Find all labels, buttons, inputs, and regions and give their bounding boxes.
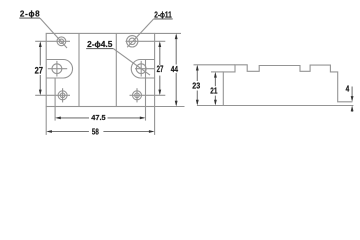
label 2-phi4.5 with leader: [86, 39, 150, 75]
dim 23: dimension line and arrows: [196, 67, 198, 104]
dim 4 at right tab: [351, 87, 353, 113]
inner section right edge: [115, 33, 117, 106]
dim 27 left: extension lines: [35, 41, 70, 95]
label 2-phi11 with leader: [127, 10, 173, 48]
hole bottom-left: [58, 88, 67, 102]
mounting hole middle-right phi4.5: [135, 61, 155, 77]
hole bottom-right: [133, 88, 142, 102]
svg-text:47.5: 47.5: [91, 113, 105, 122]
plate outline top view: [46, 33, 154, 106]
side view outline: [197, 65, 354, 106]
svg-text:2-ϕ11: 2-ϕ11: [154, 10, 172, 20]
svg-text:2-ϕ8: 2-ϕ8: [20, 10, 40, 19]
svg-text:44: 44: [171, 64, 179, 74]
dim 23: extension line: [194, 64, 236, 66]
right boss around mounting hole: [131, 60, 154, 79]
dim 21: dimension line and arrows: [214, 74, 216, 104]
mounting hole middle-left phi4.5: [48, 61, 67, 77]
svg-text:23: 23: [192, 81, 200, 91]
svg-text:58: 58: [92, 126, 99, 136]
hole top-right 2-phi11: [127, 36, 138, 47]
dim 27 right: extension lines: [126, 41, 166, 95]
svg-text:2-ϕ4.5: 2-ϕ4.5: [87, 39, 113, 49]
dim 47.5: extension lines: [55, 60, 145, 121]
inner section left edge: [78, 33, 80, 106]
dim 44: dimension line and arrows: [175, 35, 177, 105]
left boss around mounting hole: [46, 60, 72, 79]
dim 21: extension line: [211, 71, 223, 73]
label 2-phi8 with leader: [19, 10, 67, 48]
dim 27 left: dimension line and arrows: [39, 43, 41, 94]
dim 47.5: dimension line and arrows: [57, 117, 144, 119]
svg-text:4: 4: [346, 84, 350, 94]
svg-text:27: 27: [35, 65, 44, 76]
dim 27 right: dimension line and arrows: [159, 43, 161, 94]
svg-text:21: 21: [210, 86, 218, 96]
dim 44: extension lines: [155, 33, 185, 106]
dim 58: dimension line and arrows: [48, 131, 153, 133]
dim 58: extension lines: [46, 107, 154, 135]
hole top-left 2-phi8: [57, 37, 66, 46]
svg-text:27: 27: [157, 64, 164, 74]
